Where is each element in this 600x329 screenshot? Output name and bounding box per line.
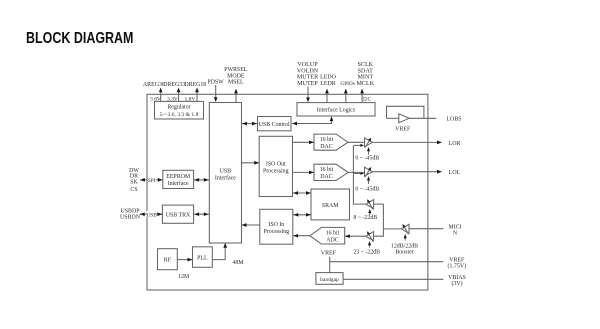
svg-text:MSEL: MSEL (228, 80, 244, 86)
svg-text:16 bit: 16 bit (320, 167, 334, 173)
svg-text:PDSW: PDSW (207, 79, 224, 85)
wire amp A4 to ADC (345, 234, 366, 238)
svg-text:VOLDN: VOLDN (297, 68, 319, 74)
svg-text:ISO Out: ISO Out (266, 161, 286, 167)
wire DREG18 out (195, 88, 199, 102)
bandgap block (316, 273, 343, 285)
USB TRX block (162, 205, 193, 223)
pin label MICIN (448, 224, 461, 236)
wire USB TRX to USB Interface (bidir) (194, 212, 210, 216)
wire DAC2 to LOL amp (348, 171, 365, 173)
regulator block (155, 101, 204, 119)
svg-text:DREG18: DREG18 (184, 82, 206, 88)
sidetone mix bus (353, 145, 366, 204)
wire ISO Out to DAC2 (293, 171, 315, 175)
svg-text:MINT: MINT (358, 75, 374, 81)
svg-text:SCLK: SCLK (358, 62, 374, 68)
amp A5 mic booster (401, 223, 409, 240)
svg-text:Processing: Processing (264, 229, 290, 235)
net label USB (146, 211, 157, 218)
wire RF to PLL (177, 258, 192, 262)
pin labels LEDO LEDR (320, 75, 336, 87)
wire EEPROM Interface to USB Interface (bidir) (194, 178, 210, 182)
svg-text:ADC: ADC (326, 238, 339, 244)
svg-text:I2C: I2C (363, 96, 371, 102)
svg-text:USB TRX: USB TRX (166, 213, 191, 219)
SRAM block (311, 189, 350, 220)
DAC1 16 bit DAC (314, 134, 348, 150)
svg-text:MODE: MODE (227, 73, 245, 79)
amp A4 ADC input 23~-22dB (366, 230, 374, 247)
svg-text:PWRSEL: PWRSEL (224, 67, 248, 73)
svg-text:USB Control: USB Control (259, 122, 290, 128)
USB Control block (258, 117, 292, 131)
svg-text:16 bit: 16 bit (320, 137, 334, 143)
label 12dB/22dB Booster (391, 244, 418, 256)
svg-text:bandgap: bandgap (320, 277, 339, 283)
wire booster to mic bus (383, 228, 401, 230)
svg-text:DAC: DAC (320, 174, 333, 180)
svg-text:LOL: LOL (449, 170, 461, 176)
wire MSEL out (234, 89, 238, 103)
svg-text:Interface Logics: Interface Logics (317, 107, 356, 114)
svg-text:GPIOs: GPIOs (340, 81, 354, 87)
svg-text:1.8V: 1.8V (185, 96, 196, 102)
wire LOR amp to LOR pin (372, 141, 442, 145)
svg-text:3.6V: 3.6V (150, 96, 161, 102)
svg-text:PLL: PLL (197, 256, 208, 262)
PLL block (193, 247, 213, 267)
svg-text:LEDO: LEDO (320, 75, 336, 81)
wire USB Interface to USB Control (bidir) (242, 122, 258, 126)
svg-text:Interface: Interface (215, 174, 236, 181)
wire VREF rail to pin (330, 261, 444, 263)
pin labels USBDP USBDN (120, 209, 141, 221)
amp A1 LOR 0~-45dB (365, 137, 373, 155)
amp A3 sidetone 8~-22dB (366, 198, 374, 215)
svg-text:12M: 12M (178, 274, 190, 280)
wire SPI port (bidir) (140, 178, 163, 182)
wire VOLUP group in (306, 87, 310, 103)
wire ISO Out to SRAM (bidir) (293, 191, 312, 195)
wire ISO In to SRAM (bidir) (293, 213, 311, 217)
pin label VBIAS (3V) (448, 275, 466, 287)
svg-text:8 ~ -22dB: 8 ~ -22dB (353, 215, 377, 221)
svg-text:DAC: DAC (320, 144, 333, 150)
ISO In Processing block (260, 209, 293, 244)
svg-text:MUTER: MUTER (297, 75, 319, 81)
svg-text:SPI: SPI (148, 178, 156, 184)
pin label VREF (1.75V) (448, 257, 467, 269)
wire DREG33 out (177, 88, 181, 102)
wire LOL amp to LOL pin (372, 170, 442, 174)
svg-text:USB: USB (220, 168, 232, 174)
svg-text:MCLK: MCLK (356, 81, 374, 87)
wire mix bus into LOL amp (353, 172, 364, 175)
DAC2 16 bit DAC (314, 164, 348, 180)
svg-text:LEDR: LEDR (320, 81, 335, 87)
wire USB port (bidir) (140, 212, 163, 216)
wire ADC to ISO In Processing (293, 234, 310, 238)
wire I2C out (360, 89, 364, 103)
svg-text:0 ~ -45dB: 0 ~ -45dB (355, 156, 379, 162)
svg-text:USBDN: USBDN (120, 215, 141, 221)
svg-text:MUTEP: MUTEP (297, 81, 318, 87)
svg-text:EEPROM: EEPROM (166, 174, 191, 180)
svg-text:(3V): (3V) (451, 280, 462, 287)
wire VREF net down to bandgap (329, 257, 331, 273)
wire LED out (325, 89, 329, 103)
wire ISO Out to DAC1 (293, 140, 315, 144)
svg-text:Processing: Processing (263, 168, 289, 174)
svg-text:VREF: VREF (321, 251, 337, 257)
svg-text:USB: USB (146, 212, 157, 218)
wire PDSW in (214, 85, 218, 102)
mic bus vertical (374, 204, 384, 236)
LOBS buffer with feedback loop (387, 106, 437, 122)
amp A2 LOL 0~-45dB (365, 166, 373, 184)
svg-text:0 ~ -45dB: 0 ~ -45dB (355, 187, 379, 193)
svg-text:LOBS: LOBS (446, 117, 461, 123)
wire DAC1 to LOR amp (348, 141, 365, 143)
svg-text:16 bit: 16 bit (326, 231, 340, 237)
svg-text:3.3V: 3.3V (167, 96, 178, 102)
svg-text:Booster: Booster (395, 250, 413, 256)
svg-text:VOLUP: VOLUP (297, 62, 318, 68)
svg-text:VBIAS: VBIAS (448, 275, 466, 281)
wire mix bus into LOR amp (353, 144, 364, 147)
svg-text:LOR: LOR (449, 141, 461, 147)
RF oscillator block (158, 249, 178, 270)
EEPROM Interface block (163, 170, 194, 188)
wire USB Interface to ISO Out Processing (242, 161, 260, 165)
Interface Logics block (297, 103, 375, 116)
USB Interface block (209, 103, 241, 244)
wire PLL to USB Interface (48M clock) (212, 243, 227, 260)
svg-text:SRAM: SRAM (322, 203, 339, 209)
svg-text:N: N (453, 230, 458, 236)
wire ISO In Processing to USB Interface (242, 223, 260, 227)
svg-text:CS: CS (130, 187, 137, 193)
svg-text:48M: 48M (232, 260, 244, 266)
pin labels DW DR SK CS (129, 168, 139, 193)
svg-text:VREF: VREF (449, 257, 465, 263)
svg-text:(1.75V): (1.75V) (448, 263, 467, 270)
pin labels PWRSEL MODE MSEL (224, 67, 248, 85)
svg-text:RF: RF (164, 258, 172, 264)
svg-text:23 ~ -22dB: 23 ~ -22dB (353, 250, 380, 256)
svg-text:Interface: Interface (168, 180, 189, 187)
net label SPI (148, 177, 156, 184)
svg-text:SK: SK (130, 179, 138, 185)
ADC 16 bit ADC (310, 227, 345, 244)
wire GPIO out (344, 89, 348, 103)
svg-text:SDAT: SDAT (358, 68, 374, 74)
wire mic bus to sidetone amp (374, 203, 384, 205)
svg-text:ISO In: ISO In (268, 222, 284, 228)
svg-text:VREF: VREF (395, 126, 411, 132)
pin labels VOLUP VOLDN MUTER MUTEP (297, 62, 319, 87)
svg-text:Regulator: Regulator (167, 105, 190, 111)
pin labels SCLK SDAT MINT MCLK (356, 62, 374, 87)
svg-text:AREG36: AREG36 (143, 82, 165, 88)
wire VBIAS rail to pin (343, 278, 443, 280)
wire MICIN pin to booster (409, 228, 443, 230)
wire USB Control to Interface Logics (bidir L-path) (292, 116, 333, 125)
svg-text:DREG33: DREG33 (163, 82, 185, 88)
ISO Out Processing block (259, 136, 292, 196)
outer chip boundary box (147, 94, 428, 290)
wire AREG36 out (159, 88, 163, 102)
svg-text:5->3.6, 3.3 & 1.8: 5->3.6, 3.3 & 1.8 (160, 112, 199, 118)
